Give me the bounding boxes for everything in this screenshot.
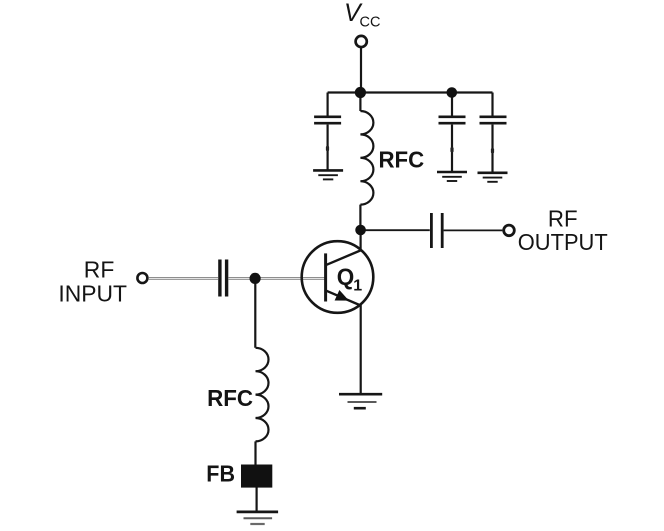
svg-text:1: 1 <box>353 277 362 294</box>
svg-text:RF: RF <box>548 206 578 232</box>
svg-text:INPUT: INPUT <box>58 281 127 307</box>
svg-text:OUTPUT: OUTPUT <box>518 229 608 255</box>
svg-text:FB: FB <box>206 460 235 486</box>
svg-text:RF: RF <box>84 256 115 282</box>
svg-text:RFC: RFC <box>207 385 253 411</box>
svg-text:CC: CC <box>360 15 381 31</box>
svg-text:Q: Q <box>337 263 355 289</box>
svg-text:RFC: RFC <box>379 147 425 173</box>
